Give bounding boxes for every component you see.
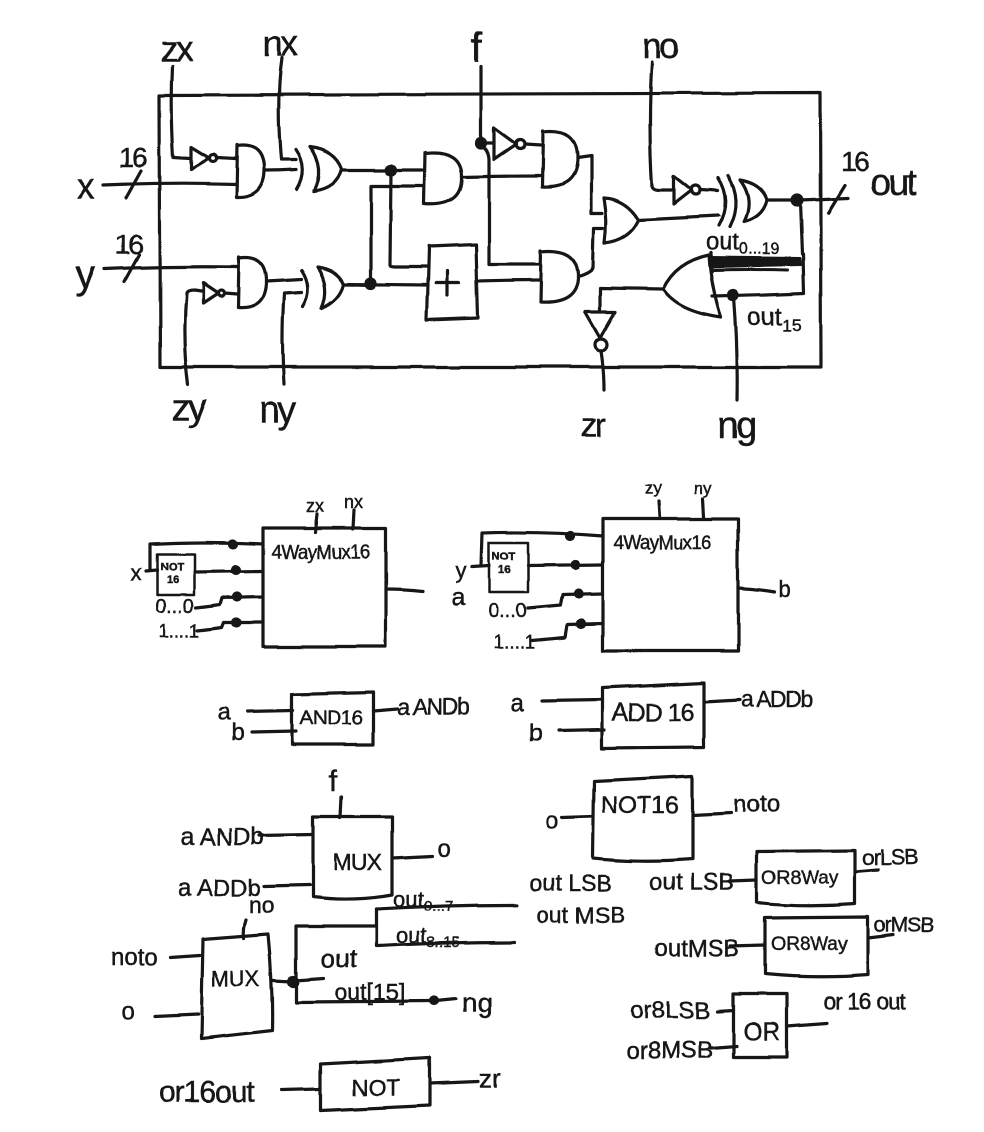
svg-text:out MSB: out MSB [537, 902, 625, 928]
svg-text:o: o [545, 808, 558, 835]
svg-text:noto: noto [733, 791, 780, 818]
svg-text:outMSB: outMSB [654, 935, 739, 962]
svg-text:noto: noto [111, 944, 158, 971]
svg-text:ny: ny [694, 479, 712, 498]
svg-text:out0...7: out0...7 [393, 887, 453, 915]
svg-text:out: out [321, 943, 358, 973]
svg-text:16: 16 [841, 146, 869, 177]
svg-text:16: 16 [115, 229, 143, 260]
svg-text:or8MSB: or8MSB [626, 1037, 713, 1064]
svg-text:no: no [642, 25, 679, 66]
svg-text:zr: zr [479, 1063, 501, 1093]
svg-text:orMSB: orMSB [874, 914, 933, 937]
svg-text:a ADDb: a ADDb [741, 686, 813, 712]
svg-text:b: b [231, 719, 244, 746]
svg-text:out8..15: out8..15 [396, 923, 460, 951]
svg-text:o: o [122, 998, 135, 1025]
svg-text:NOT: NOT [351, 1074, 400, 1100]
svg-text:b: b [779, 577, 791, 602]
svg-text:or16out: or16out [159, 1076, 255, 1109]
svg-text:OR8Way: OR8Way [762, 868, 839, 889]
svg-text:zx: zx [160, 28, 194, 69]
svg-text:AND16: AND16 [300, 707, 362, 729]
svg-text:ng: ng [462, 987, 493, 1018]
svg-text:4WayMux16: 4WayMux16 [613, 533, 712, 554]
svg-text:4WayMux16: 4WayMux16 [271, 542, 370, 563]
svg-text:a: a [452, 584, 466, 611]
svg-text:x: x [131, 560, 142, 585]
svg-text:f: f [471, 24, 483, 71]
svg-text:16: 16 [166, 574, 178, 586]
svg-text:ny: ny [259, 389, 297, 431]
svg-text:ng: ng [717, 405, 755, 447]
svg-text:0...0: 0...0 [488, 600, 527, 622]
svg-text:out: out [870, 162, 917, 203]
svg-text:a ANDb: a ANDb [181, 824, 264, 851]
svg-text:a ANDb: a ANDb [397, 694, 469, 720]
svg-text:out LSB: out LSB [649, 869, 734, 896]
svg-text:a: a [217, 698, 231, 725]
svg-text:1....1: 1....1 [493, 632, 535, 653]
svg-text:nx: nx [344, 492, 363, 512]
svg-text:NOT16: NOT16 [601, 792, 678, 819]
svg-text:ADD 16: ADD 16 [612, 699, 694, 727]
svg-text:zy: zy [171, 387, 207, 429]
svg-text:b: b [529, 720, 542, 747]
svg-text:or8LSB: or8LSB [630, 997, 710, 1024]
svg-text:NOT: NOT [492, 551, 516, 563]
svg-text:a: a [511, 690, 525, 717]
svg-text:out[15]: out[15] [335, 979, 405, 1005]
svg-text:x: x [77, 165, 95, 206]
svg-text:16: 16 [119, 142, 147, 173]
svg-text:zr: zr [580, 407, 606, 445]
svg-text:no: no [249, 892, 275, 918]
svg-text:orLSB: orLSB [862, 845, 918, 870]
svg-text:nx: nx [263, 23, 299, 64]
svg-text:MUX: MUX [333, 849, 382, 875]
svg-text:OR8Way: OR8Way [771, 934, 848, 955]
svg-text:o: o [437, 835, 450, 862]
svg-text:16: 16 [498, 564, 510, 576]
svg-text:MUX: MUX [211, 966, 260, 991]
svg-text:f: f [329, 765, 338, 798]
svg-text:1....1: 1....1 [158, 622, 200, 643]
svg-text:zy: zy [645, 478, 663, 497]
svg-text:zx: zx [306, 496, 324, 516]
svg-text:OR: OR [743, 1018, 781, 1046]
svg-text:y: y [456, 558, 467, 583]
svg-text:out15: out15 [748, 303, 802, 335]
svg-text:NOT: NOT [160, 561, 184, 573]
svg-text:or 16 out: or 16 out [823, 988, 906, 1014]
svg-text:out LSB: out LSB [530, 870, 612, 896]
svg-text:0...0: 0...0 [155, 596, 194, 618]
svg-text:y: y [75, 253, 95, 297]
svg-text:out0...19: out0...19 [706, 229, 780, 258]
